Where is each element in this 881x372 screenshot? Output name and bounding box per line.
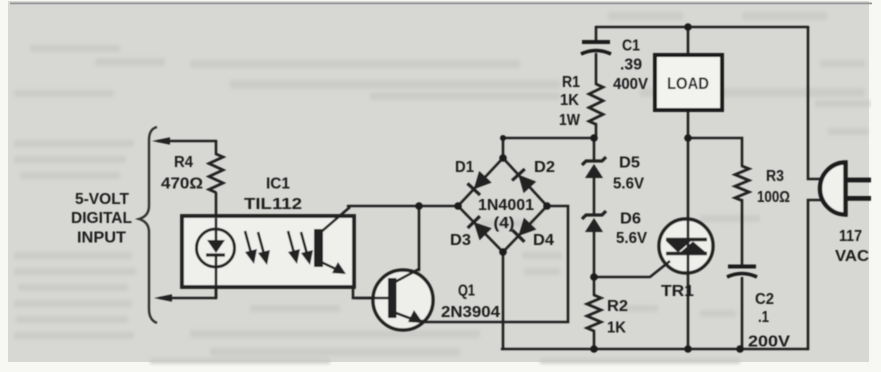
phototransistor emitter lead [321,262,338,270]
wire bottom input arrow [160,297,216,300]
diode D4 [518,218,536,236]
junction node C2 bottom rail [736,345,744,353]
diode D1 [474,171,492,189]
svg-text:IC1: IC1 [266,176,290,193]
plug prong upper [846,178,871,183]
svg-text:DIGITAL: DIGITAL [71,210,132,227]
wire bridge top stem to R1 junction [503,138,594,158]
node bridge right vertex [543,202,551,210]
light arrow 4 [301,232,313,265]
resistor R3 [735,166,749,201]
wire C1 R1 chain [595,27,598,138]
brace 5-volt input [139,127,157,323]
wire opto base out to Q1 [353,288,387,298]
svg-text:5-VOLT: 5-VOLT [75,191,130,208]
resistor R2 [587,295,601,331]
plug prong lower [846,196,871,201]
svg-text:2N3904: 2N3904 [441,304,500,321]
wire LOAD stems [687,27,690,138]
resistor R4 [209,154,223,193]
svg-text:.39: .39 [620,57,642,74]
svg-text:D4: D4 [533,232,554,249]
svg-text:LOAD: LOAD [667,74,709,93]
wire R3 to C2 to rail [741,200,744,349]
bridge diamond [458,158,547,252]
svg-text:200V: 200V [748,334,791,351]
svg-text:5.6V: 5.6V [613,176,645,193]
LED circle [197,229,235,267]
junction node TR1 bottom rail [684,345,692,353]
LED triangle [207,240,225,253]
svg-text:INPUT: INPUT [77,230,127,247]
svg-text:470Ω: 470Ω [161,176,203,193]
plug 117VAC [820,163,845,215]
junction node zener/R2/gate [590,273,598,281]
junction node Q1 collector to bridge wire [415,202,423,210]
wire Q1 emitter run [424,206,568,322]
svg-text:1K: 1K [607,320,627,337]
capacitor C2 [727,267,757,278]
junction corner bridge top stem [500,135,506,141]
top rule line [10,3,872,5]
svg-text:(4): (4) [494,215,515,232]
svg-text:C2: C2 [755,291,774,308]
wire LOAD to R3 [688,138,742,166]
Q1 emitter lead [396,313,425,321]
light arrow 1 [245,231,257,264]
node bridge left vertex [454,202,462,210]
svg-text:D5: D5 [619,155,640,172]
wire bottom rail [502,348,808,351]
light arrow 2 [258,232,270,265]
svg-text:100Ω: 100Ω [757,189,790,206]
capacitor C1 [581,42,611,54]
svg-text:400V: 400V [613,76,649,93]
wire R4 LED chain [215,141,218,298]
svg-text:VAC: VAC [835,248,869,265]
wire Q1 collector riser [418,206,421,270]
wire zener chain D5 D6 R2 [593,138,596,349]
TR1 triangle right [680,242,706,253]
phototransistor base bar [314,229,323,267]
svg-text:R4: R4 [174,154,193,171]
TR1 gate lead [594,261,670,277]
wire right rail upper [808,27,821,179]
zener D5 [582,157,606,165]
svg-text:R2: R2 [607,298,628,315]
junction node LOAD bottom / R3 / TR1 [684,134,692,142]
diode D2 [518,175,536,193]
wire bridge left run [348,205,458,208]
wire top rail [596,26,808,29]
resistor R1 [589,84,603,124]
svg-text:1W: 1W [559,112,580,129]
junction node bridge top / R1 bottom [590,134,598,142]
Q1 collector lead [395,269,419,282]
wire bridge bottom stem [502,252,505,349]
svg-text:R1: R1 [562,74,580,91]
Q1 base lead [355,297,388,300]
svg-text:Q1: Q1 [458,283,475,300]
junction node LOAD top on AC rail [684,23,692,31]
triac TR1 [659,219,713,273]
svg-text:5.6V: 5.6V [616,230,648,247]
svg-text:117: 117 [839,228,862,245]
LED bar [206,253,225,256]
LOAD box [655,55,722,110]
junction node R2 bottom rail [590,345,598,353]
triac vertical through [687,138,690,349]
wire TR1 main terminal vertical [687,219,690,273]
wire right rail lower [808,200,821,349]
TR1 MT bars [666,240,707,254]
svg-text:1N4001: 1N4001 [478,197,534,214]
svg-text:R3: R3 [766,168,784,185]
zener D6 [582,211,606,219]
TR1 triangle left [666,241,691,253]
svg-text:D3: D3 [450,232,471,249]
svg-text:1K: 1K [560,92,580,109]
arrow top input [152,137,170,145]
transistor Q1 [373,270,433,330]
node bridge bottom vertex [499,248,507,256]
svg-text:D1: D1 [455,159,474,176]
phototransistor collector lead [321,207,350,232]
node bridge DC+ (top vertex) [499,154,507,162]
svg-text:C1: C1 [622,38,640,55]
opto box IC1 [182,216,354,287]
LED wires through [215,218,218,298]
light arrow 3 [288,231,300,264]
diode D3 [474,222,492,240]
arrow bottom input [154,294,172,302]
svg-text:TIL112: TIL112 [244,196,302,213]
svg-text:D6: D6 [620,211,641,228]
svg-text:D2: D2 [534,159,555,176]
svg-text:.1: .1 [758,309,769,326]
Q1 base bar [388,278,397,318]
wire top input arrow [158,140,216,143]
svg-text:TR1: TR1 [661,283,694,300]
